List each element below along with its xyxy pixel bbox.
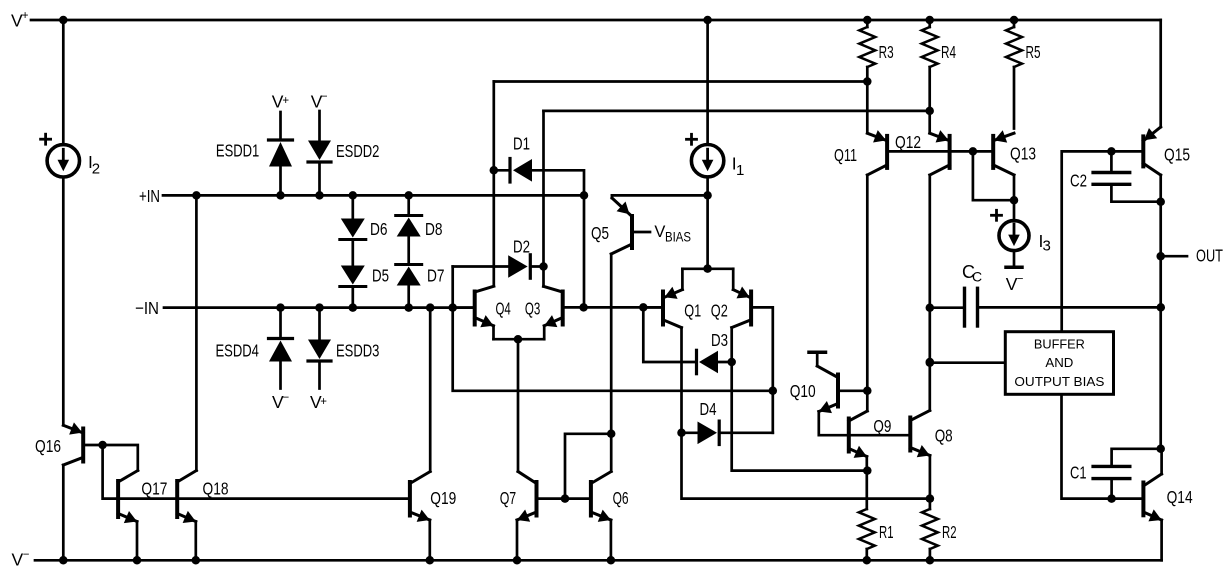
svg-text:Q14: Q14 bbox=[1167, 487, 1193, 507]
svg-text:2: 2 bbox=[92, 161, 100, 178]
svg-text:Q13: Q13 bbox=[1010, 143, 1036, 163]
svg-text:Q18: Q18 bbox=[203, 478, 229, 498]
svg-text:−: − bbox=[321, 91, 328, 103]
svg-text:Q2: Q2 bbox=[711, 300, 728, 320]
svg-text:D4: D4 bbox=[700, 399, 717, 419]
svg-text:Q17: Q17 bbox=[141, 478, 167, 498]
svg-text:D5: D5 bbox=[372, 266, 389, 286]
svg-text:V: V bbox=[654, 223, 665, 241]
svg-text:R1: R1 bbox=[879, 522, 894, 542]
svg-text:V: V bbox=[12, 549, 24, 569]
svg-text:+: + bbox=[22, 10, 29, 22]
svg-text:OUTPUT BIAS: OUTPUT BIAS bbox=[1014, 375, 1104, 389]
svg-text:3: 3 bbox=[1043, 238, 1051, 255]
svg-text:Q11: Q11 bbox=[834, 145, 857, 165]
svg-text:−: − bbox=[283, 392, 290, 404]
svg-text:BIAS: BIAS bbox=[665, 229, 691, 245]
svg-text:R5: R5 bbox=[1026, 42, 1041, 62]
svg-text:Q5: Q5 bbox=[591, 223, 609, 243]
svg-text:Q3: Q3 bbox=[525, 299, 540, 319]
svg-text:+: + bbox=[320, 396, 327, 408]
svg-text:D8: D8 bbox=[425, 219, 443, 239]
svg-text:−: − bbox=[23, 549, 30, 561]
svg-text:OUT: OUT bbox=[1196, 246, 1223, 266]
svg-text:ESDD2: ESDD2 bbox=[336, 141, 379, 161]
svg-text:Q8: Q8 bbox=[935, 425, 953, 445]
svg-text:D2: D2 bbox=[513, 237, 530, 257]
svg-text:D7: D7 bbox=[427, 266, 445, 286]
svg-text:ESDD3: ESDD3 bbox=[336, 341, 379, 361]
svg-text:Q6: Q6 bbox=[613, 488, 629, 508]
svg-text:C2: C2 bbox=[1070, 171, 1087, 191]
svg-text:D6: D6 bbox=[370, 219, 388, 239]
svg-text:+IN: +IN bbox=[139, 186, 160, 206]
svg-text:Q1: Q1 bbox=[684, 300, 701, 320]
svg-text:BUFFER: BUFFER bbox=[1034, 337, 1085, 351]
svg-text:Q19: Q19 bbox=[430, 488, 456, 508]
svg-text:R2: R2 bbox=[942, 522, 957, 542]
svg-text:R4: R4 bbox=[941, 42, 956, 62]
svg-text:Q15: Q15 bbox=[1164, 144, 1190, 164]
svg-text:Q10: Q10 bbox=[790, 381, 816, 401]
svg-text:AND: AND bbox=[1045, 356, 1073, 370]
svg-text:Q4: Q4 bbox=[496, 299, 511, 319]
svg-text:R3: R3 bbox=[879, 42, 894, 62]
svg-text:D3: D3 bbox=[711, 330, 728, 350]
svg-text:Q9: Q9 bbox=[873, 416, 891, 436]
svg-text:Q12: Q12 bbox=[895, 132, 921, 152]
svg-text:−: − bbox=[1017, 274, 1024, 286]
svg-text:Q16: Q16 bbox=[35, 436, 61, 456]
svg-text:ESDD1: ESDD1 bbox=[216, 141, 259, 161]
svg-text:C1: C1 bbox=[1070, 462, 1087, 482]
svg-text:−IN: −IN bbox=[135, 298, 159, 318]
svg-text:1: 1 bbox=[736, 162, 744, 179]
svg-text:D1: D1 bbox=[513, 134, 530, 154]
svg-text:ESDD4: ESDD4 bbox=[216, 341, 260, 361]
svg-text:+: + bbox=[282, 95, 289, 107]
svg-text:Q7: Q7 bbox=[500, 488, 517, 508]
svg-text:C: C bbox=[972, 269, 982, 285]
